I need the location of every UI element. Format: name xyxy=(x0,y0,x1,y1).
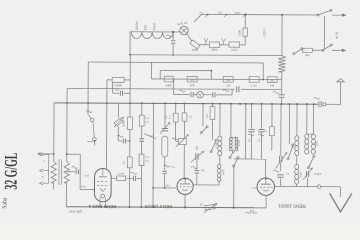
wire path xyxy=(97,184,107,186)
svg-text:0,5: 0,5 xyxy=(145,159,149,163)
terminal tap1 xyxy=(40,153,44,156)
svg-text:0,5M: 0,5M xyxy=(251,84,257,88)
inductor L ant a xyxy=(295,136,299,141)
svg-text:0,2: 0,2 xyxy=(189,115,193,119)
wire xyxy=(202,13,318,16)
junction xyxy=(153,102,155,104)
junction xyxy=(87,102,89,104)
wire xyxy=(271,136,273,151)
wire xyxy=(250,133,252,159)
svg-text:5000: 5000 xyxy=(166,83,173,87)
wire xyxy=(67,153,80,155)
wire xyxy=(93,122,94,138)
svg-text:0,1: 0,1 xyxy=(145,155,149,159)
terminal earth jack xyxy=(317,185,320,188)
wire xyxy=(183,121,185,137)
wire xyxy=(175,103,177,113)
junction xyxy=(281,103,283,105)
wire path xyxy=(263,190,269,191)
switch blade xyxy=(288,145,293,158)
inductor L IF b xyxy=(217,164,221,168)
wire xyxy=(211,119,213,139)
wire xyxy=(66,88,68,161)
svg-text:1M: 1M xyxy=(200,203,204,207)
svg-text:0,04: 0,04 xyxy=(84,174,89,177)
inductor L IF a xyxy=(218,136,222,141)
svg-text:0,07: 0,07 xyxy=(235,11,241,15)
junction xyxy=(296,103,298,105)
wire xyxy=(323,16,325,48)
terminal mains L arrow xyxy=(342,14,347,17)
junction xyxy=(129,102,131,104)
capacitor xyxy=(277,174,283,176)
junction xyxy=(262,79,264,81)
resistor R 2M xyxy=(268,77,278,83)
wire xyxy=(239,44,245,46)
wire xyxy=(67,171,75,173)
junction xyxy=(152,187,154,189)
terminal mains N arrow xyxy=(342,49,347,52)
wire xyxy=(79,154,81,189)
lamp La dial 4V 0.1A xyxy=(180,26,188,34)
terminal antenna jack xyxy=(323,103,326,106)
wire path xyxy=(336,79,345,105)
junction xyxy=(66,153,68,155)
svg-text:2M2: 2M2 xyxy=(270,78,276,82)
wire xyxy=(280,178,282,186)
svg-text:~ 220 V: ~ 220 V xyxy=(262,28,266,38)
switch blade xyxy=(211,140,216,151)
svg-text:20000: 20000 xyxy=(135,21,139,30)
annotation mark xyxy=(164,165,170,167)
junction xyxy=(129,140,131,142)
wire xyxy=(280,163,282,171)
wire xyxy=(43,182,48,184)
wire xyxy=(129,103,131,117)
svg-text:6V: 6V xyxy=(199,11,203,15)
junction xyxy=(66,102,68,104)
core xyxy=(58,159,60,184)
svg-text:0,1: 0,1 xyxy=(168,115,171,119)
wire xyxy=(339,187,341,197)
wire xyxy=(261,104,263,129)
svg-text:0,1: 0,1 xyxy=(146,116,150,120)
wire xyxy=(107,79,112,81)
svg-text:1M2: 1M2 xyxy=(226,78,232,82)
wire xyxy=(184,194,186,207)
annotation mark xyxy=(86,111,92,113)
svg-text:500: 500 xyxy=(190,83,195,87)
wire xyxy=(126,177,133,179)
junction xyxy=(94,140,96,142)
resistor box xyxy=(178,138,186,144)
wire xyxy=(275,185,318,187)
wire xyxy=(296,156,298,164)
capacitor C decouple xyxy=(279,94,285,96)
svg-text:1500: 1500 xyxy=(237,29,241,36)
wire xyxy=(196,146,198,150)
annotation mark xyxy=(223,90,229,92)
wire xyxy=(230,104,232,137)
wire xyxy=(164,175,166,188)
svg-text:2M: 2M xyxy=(270,84,275,88)
wire xyxy=(233,166,235,207)
wire xyxy=(94,141,96,145)
svg-text:RENS 1823 d: RENS 1823 d xyxy=(88,204,116,209)
terminal circle xyxy=(91,118,94,121)
wire xyxy=(307,133,314,135)
svg-text:32 G/GL: 32 G/GL xyxy=(1,153,21,190)
junction xyxy=(289,103,291,105)
junction xyxy=(281,14,283,16)
wire path xyxy=(329,193,351,212)
resistor R-dropper 1500 vertical xyxy=(243,28,248,36)
junction xyxy=(239,103,241,105)
annotation mark xyxy=(179,90,185,92)
diode D detector xyxy=(197,91,204,98)
junction xyxy=(251,103,253,105)
wire xyxy=(129,168,131,207)
wire xyxy=(210,71,212,80)
inductor xyxy=(311,134,315,139)
wire xyxy=(99,198,101,207)
junction xyxy=(226,14,228,16)
resistor R zigzag dropper xyxy=(278,56,285,73)
svg-text:0,4: 0,4 xyxy=(201,168,205,172)
arrow xyxy=(204,203,217,213)
wire xyxy=(312,104,314,134)
wire xyxy=(187,34,192,42)
svg-text:0,6: 0,6 xyxy=(218,11,222,15)
wire xyxy=(194,184,220,186)
wire xyxy=(194,14,202,22)
wire xyxy=(111,177,116,179)
inductor xyxy=(305,134,309,139)
wire xyxy=(261,183,271,185)
svg-text:W 75: W 75 xyxy=(335,31,339,38)
annotation mark xyxy=(144,134,150,136)
value ~7uF xyxy=(166,35,172,37)
resistor R 0.1 xyxy=(173,113,178,122)
wire xyxy=(129,55,131,103)
svg-text:Y(M) 3050: Y(M) 3050 xyxy=(245,211,258,215)
wire xyxy=(244,15,246,28)
junction xyxy=(245,103,247,105)
wire xyxy=(244,36,246,45)
junction xyxy=(184,103,186,105)
capacitor C grid2 xyxy=(195,170,199,172)
terminal tap2 xyxy=(40,169,44,172)
wire xyxy=(184,178,186,183)
wire xyxy=(245,104,247,159)
wire xyxy=(281,98,283,104)
wire xyxy=(281,72,283,94)
annotation mark xyxy=(314,97,320,99)
wire xyxy=(202,104,204,126)
svg-text:500pF: 500pF xyxy=(314,172,322,176)
annotation mark xyxy=(72,166,78,168)
wire tap bus xyxy=(48,155,50,184)
label mark xyxy=(117,135,123,137)
annotation mark xyxy=(273,91,279,93)
arrow xyxy=(176,135,189,148)
wire xyxy=(219,104,221,136)
wire xyxy=(141,103,143,115)
svg-text:A10: A10 xyxy=(165,183,170,187)
junction xyxy=(271,103,273,105)
junction xyxy=(230,103,232,105)
inductor xyxy=(235,137,238,140)
wire xyxy=(296,104,298,136)
arrow xyxy=(191,151,204,162)
switch blade xyxy=(234,158,238,166)
wire xyxy=(262,63,264,80)
switch S-voltage selector xyxy=(294,49,302,54)
wire xyxy=(281,15,283,56)
wire xyxy=(67,87,234,90)
wire xyxy=(265,178,267,184)
inductor L ant b xyxy=(295,164,299,169)
wire xyxy=(87,103,89,114)
wire xyxy=(219,44,229,46)
wire xyxy=(271,104,273,127)
wire xyxy=(183,104,185,113)
winding primary xyxy=(51,161,56,183)
capacitor C tone xyxy=(75,169,77,174)
wire xyxy=(129,130,131,157)
wire xyxy=(342,14,346,16)
wire xyxy=(88,61,263,64)
wire xyxy=(172,44,174,55)
capacitor C 4/0.1 xyxy=(162,170,166,172)
wire xyxy=(117,103,119,117)
wire xyxy=(241,88,282,90)
wire xyxy=(312,49,322,51)
wire xyxy=(140,165,142,207)
svg-text:0,002: 0,002 xyxy=(238,140,241,147)
wire xyxy=(234,158,266,160)
junction xyxy=(202,103,204,105)
tap Y1 xyxy=(204,38,208,44)
wire xyxy=(200,44,210,46)
wire xyxy=(118,140,122,142)
wire path xyxy=(179,186,192,188)
terminal circle xyxy=(177,178,193,194)
junction xyxy=(172,54,174,56)
junction xyxy=(265,178,267,180)
capacitor xyxy=(279,156,281,163)
resistor R 50000 xyxy=(128,117,133,130)
wire xyxy=(218,182,220,185)
wire xyxy=(112,82,114,93)
wire xyxy=(54,103,318,104)
wire xyxy=(53,103,55,161)
wire xyxy=(180,183,190,185)
junction xyxy=(105,206,107,208)
resistor box xyxy=(302,48,312,52)
tap Y2 xyxy=(222,39,226,45)
wire xyxy=(124,79,130,81)
terminal circle xyxy=(257,178,274,195)
taps voltage xyxy=(205,15,245,18)
svg-text:B08 W/40: B08 W/40 xyxy=(69,209,83,213)
annotation mark xyxy=(248,134,254,136)
label mark xyxy=(150,136,156,138)
junction xyxy=(129,54,131,56)
arrow xyxy=(114,117,124,127)
junction xyxy=(261,103,263,105)
wire xyxy=(87,62,89,103)
wire xyxy=(43,170,48,172)
svg-text:50000: 50000 xyxy=(121,119,125,127)
wire xyxy=(194,94,197,96)
label mark xyxy=(131,172,137,174)
wire xyxy=(99,176,107,178)
wire xyxy=(265,159,267,178)
wire xyxy=(332,14,341,16)
wire xyxy=(341,49,345,51)
junction xyxy=(219,103,221,105)
svg-text:RENS 1820/1: RENS 1820/1 xyxy=(278,204,306,209)
wire xyxy=(175,122,177,141)
wire xyxy=(160,69,211,71)
capacitor C j xyxy=(122,139,124,144)
svg-text:0,5: 0,5 xyxy=(205,114,209,118)
svg-text:5000: 5000 xyxy=(222,169,225,175)
svg-text:0,200: 0,200 xyxy=(215,141,218,148)
capacitor C det1 xyxy=(190,92,192,97)
trimmer P1 xyxy=(114,118,123,126)
terminal circle xyxy=(93,138,96,141)
wire xyxy=(172,32,174,40)
wire xyxy=(102,168,104,175)
svg-text:10000: 10000 xyxy=(114,83,122,87)
svg-text:3500: 3500 xyxy=(211,48,218,52)
junction xyxy=(152,206,154,208)
resistor box xyxy=(117,176,126,181)
wire xyxy=(150,62,152,79)
wire xyxy=(251,104,253,129)
value mark xyxy=(113,88,119,90)
resistor R small xyxy=(269,127,274,136)
wire xyxy=(219,156,221,164)
svg-text:RENS 1820/5: RENS 1820/5 xyxy=(144,204,172,209)
resistor R 0.2 xyxy=(182,113,187,121)
junction xyxy=(175,102,177,104)
capacitor xyxy=(195,153,197,160)
wire xyxy=(130,31,178,33)
junction xyxy=(53,153,55,155)
inductor L-heater smoothing coil xyxy=(131,32,173,39)
svg-text:150: 150 xyxy=(143,25,147,31)
wire xyxy=(67,207,267,208)
wire xyxy=(88,115,92,119)
capacitor C coupling xyxy=(119,91,121,96)
wire path xyxy=(182,189,187,190)
svg-text:A.80: A.80 xyxy=(81,185,87,188)
capacitor xyxy=(162,128,168,130)
resistor R screen xyxy=(139,115,144,126)
junction xyxy=(210,70,212,72)
wire xyxy=(38,153,54,155)
wire xyxy=(137,177,142,179)
wire xyxy=(231,89,233,95)
wire xyxy=(216,94,232,96)
capacitor C det2 xyxy=(212,92,214,97)
wire path xyxy=(100,188,106,191)
resistor R 500 xyxy=(187,76,197,82)
wire xyxy=(106,80,108,169)
junction xyxy=(184,206,186,208)
wire xyxy=(231,136,237,138)
resistor R-heater 3500 xyxy=(209,42,219,48)
wire xyxy=(326,103,341,105)
wire xyxy=(178,30,180,33)
annotation mark xyxy=(258,134,264,136)
wire xyxy=(129,54,282,57)
wire xyxy=(113,92,120,94)
junction xyxy=(140,206,142,208)
tube V1 pin circle xyxy=(101,194,105,198)
wire xyxy=(196,160,198,170)
wire xyxy=(196,174,198,185)
svg-text:0,1: 0,1 xyxy=(171,165,175,169)
wire path xyxy=(260,186,273,188)
terminal speaker arrow xyxy=(38,152,42,156)
junction xyxy=(244,14,246,16)
wire xyxy=(153,187,176,189)
wire xyxy=(260,133,262,159)
wire xyxy=(151,78,281,81)
wire xyxy=(164,157,166,170)
wire xyxy=(43,153,48,155)
wire xyxy=(78,171,81,173)
resistor R 5000 xyxy=(164,76,173,82)
switch S-mains top blade xyxy=(318,10,331,15)
svg-text:0,2: 0,2 xyxy=(165,115,168,119)
wire xyxy=(66,183,68,207)
wire xyxy=(203,94,211,96)
winding secondary xyxy=(64,161,69,183)
wire xyxy=(183,145,185,179)
wire xyxy=(53,183,55,189)
svg-text:4000: 4000 xyxy=(152,23,156,30)
wire xyxy=(129,32,131,55)
svg-text:1000: 1000 xyxy=(315,140,318,146)
wire xyxy=(117,127,119,141)
wire xyxy=(174,94,190,96)
resistor R 0.2b xyxy=(210,107,215,120)
resistor R-heater 1360 xyxy=(229,42,240,47)
wire xyxy=(126,140,129,142)
junction xyxy=(106,102,108,104)
diode symbol Y xyxy=(198,93,202,98)
resistor R 1M xyxy=(223,77,233,83)
capacitor C antenna series xyxy=(318,101,320,107)
svg-text:1360: 1360 xyxy=(231,48,238,52)
svg-text:0,5: 0,5 xyxy=(146,120,150,124)
wire xyxy=(288,104,290,144)
svg-text:Saba: Saba xyxy=(1,197,8,208)
arrow xyxy=(276,153,287,169)
inductor xyxy=(229,137,232,140)
resistor R 0.5M xyxy=(249,77,259,83)
junction xyxy=(207,14,209,16)
wire xyxy=(321,186,341,188)
junction xyxy=(164,187,166,189)
wire xyxy=(212,104,214,107)
svg-text:5000: 5000 xyxy=(300,171,303,177)
